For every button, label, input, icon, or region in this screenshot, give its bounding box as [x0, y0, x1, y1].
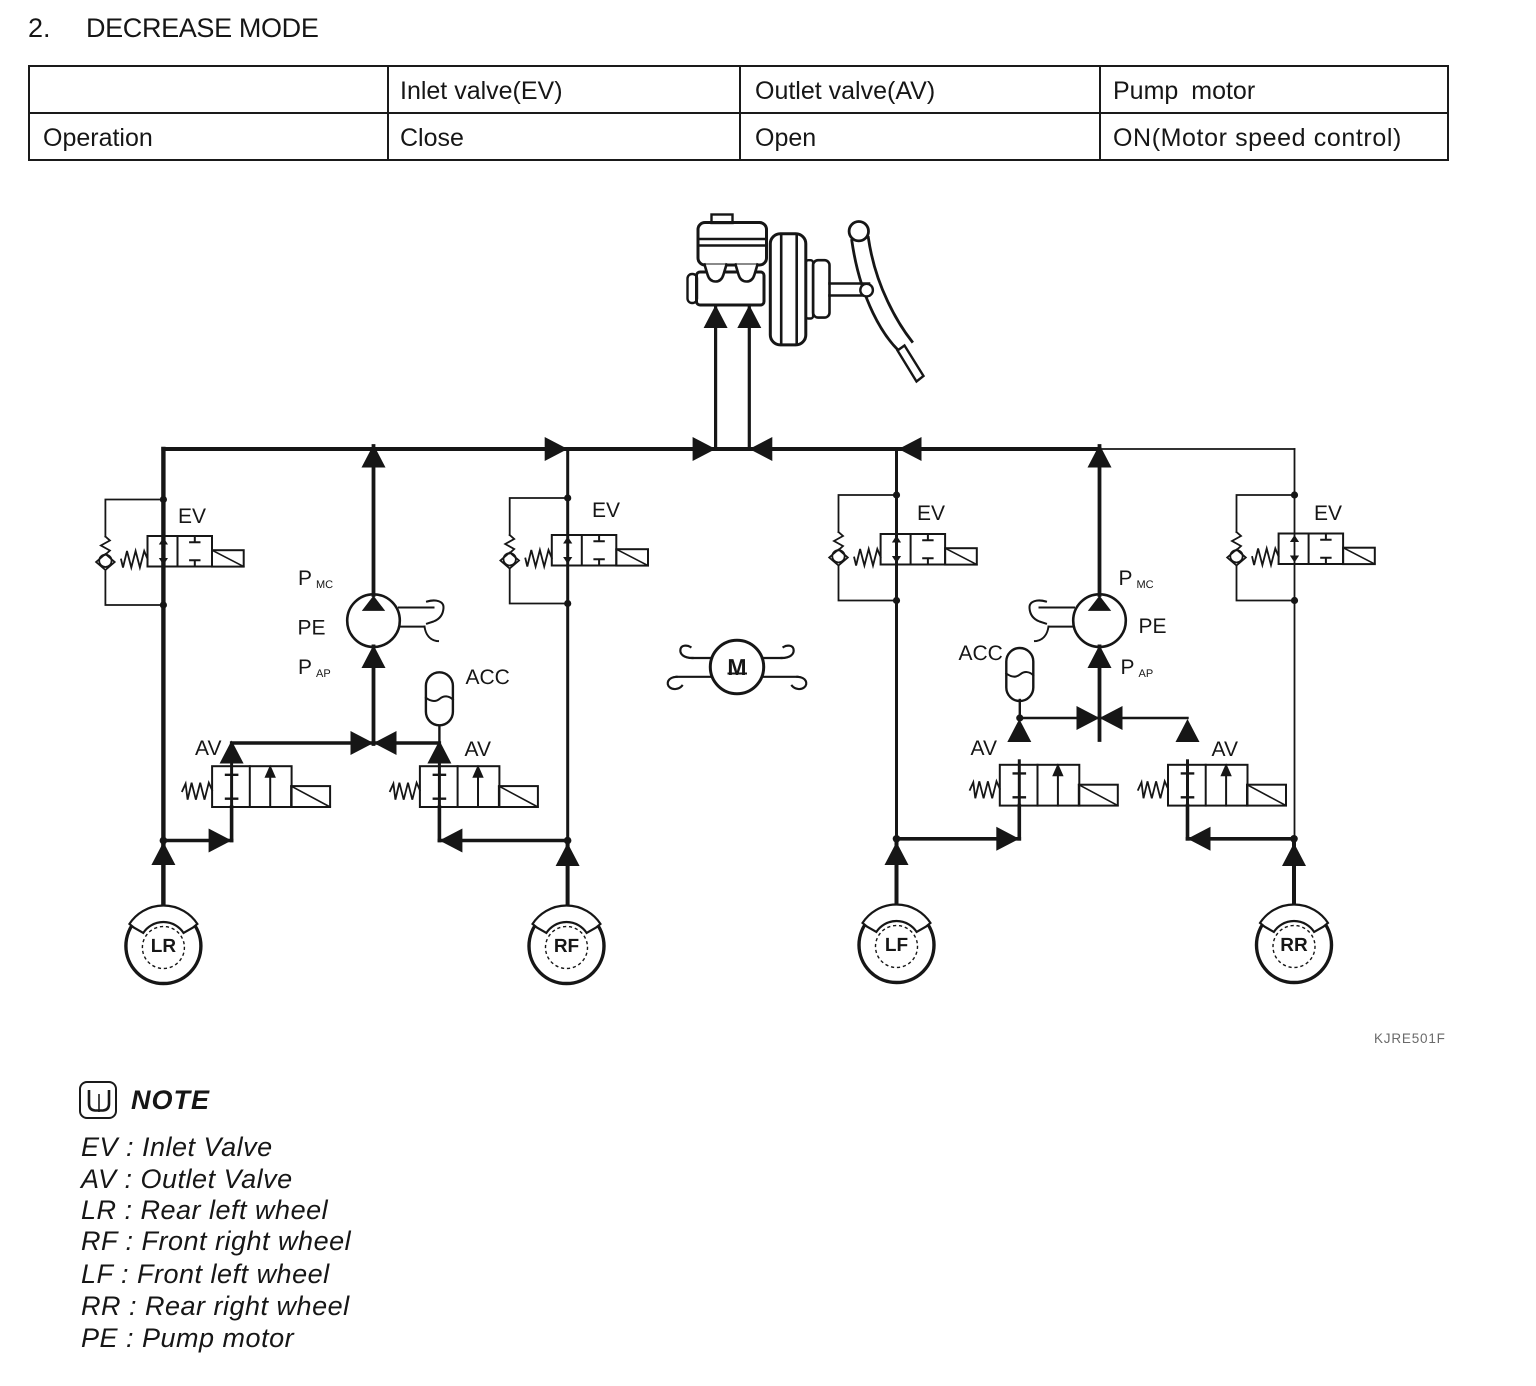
label P MC right: [1119, 567, 1154, 591]
brake booster: [770, 234, 829, 345]
title: [28, 13, 51, 44]
wire AV return line right: [1020, 717, 1188, 719]
arrow bus toward MC primary: [693, 437, 716, 461]
wire pump right discharge: [1088, 445, 1112, 596]
legend: [81, 1132, 273, 1163]
arrow AV4 to return: [1176, 719, 1200, 742]
wire pump right suction: [1088, 645, 1112, 740]
wire RF circuit vertical: [566, 449, 569, 909]
note icon: [79, 1081, 117, 1119]
label ACC left: [466, 666, 510, 689]
wire pump left discharge: [362, 445, 386, 596]
wire RR lower link: [1188, 827, 1295, 851]
arrow LF wheel feed: [885, 842, 909, 865]
label EV4: [1314, 502, 1342, 525]
wire bus thin right segment: [1100, 448, 1295, 450]
arrow bus toward LF node: [899, 437, 922, 461]
inlet valve EV3 (LF): [854, 534, 977, 566]
figure code: [1374, 1031, 1446, 1046]
svg-text:MC: MC: [316, 579, 333, 591]
svg-text:AV: AV: [971, 737, 997, 760]
wire ACC left stem: [438, 726, 440, 743]
wire master cylinder primary line: [704, 305, 728, 449]
wire AV2 outlet stub: [438, 807, 442, 841]
arrow bus toward MC secondary: [749, 437, 772, 461]
svg-text:P: P: [298, 567, 312, 590]
label P AP left: [298, 656, 331, 680]
arrow RF wheel feed: [556, 843, 580, 866]
wire LF circuit vertical: [895, 449, 898, 908]
wire RF lower link: [439, 829, 567, 853]
svg-text:AV: AV: [465, 738, 491, 761]
svg-text:ACC: ACC: [959, 642, 1003, 665]
outlet valve AV1 (LR): [182, 762, 330, 807]
arrow bus toward RF node: [545, 437, 568, 461]
svg-text:RF: RF: [554, 936, 579, 957]
svg-text:P: P: [1119, 567, 1133, 590]
svg-text:PE: PE: [298, 617, 326, 640]
svg-text:EV: EV: [1314, 502, 1342, 525]
accumulator ACC left: [426, 672, 453, 725]
svg-text:EV: EV: [917, 502, 945, 525]
label P MC left: [298, 567, 333, 591]
svg-text:AV: AV: [1212, 738, 1238, 761]
wheel LR: [126, 841, 201, 984]
arrow RR wheel feed: [1282, 843, 1306, 866]
svg-text:RR: RR: [1280, 935, 1308, 956]
inlet valve EV4 (RR): [1252, 534, 1375, 566]
svg-text:M: M: [727, 654, 746, 680]
svg-text:LF: LF: [885, 935, 908, 956]
check valve bypass EV1: [96, 496, 167, 609]
wire main supply bus: [163, 447, 1099, 451]
wire pump left suction: [362, 645, 386, 744]
wire AV return line left: [232, 741, 440, 744]
label EV1: [178, 505, 206, 528]
junction butterfly right: [1077, 706, 1123, 730]
outlet valve AV2 (RF): [390, 762, 538, 807]
check valve bypass EV4: [1227, 491, 1298, 604]
check valve bypass EV2: [500, 494, 571, 607]
arrow AV3 to return: [1007, 719, 1031, 742]
svg-text:AP: AP: [1139, 668, 1154, 680]
master cylinder ports: [705, 265, 758, 282]
wire LF lower link: [897, 827, 1020, 851]
svg-text:P: P: [298, 656, 312, 679]
label PE right: [1139, 615, 1167, 638]
brake pedal: [849, 222, 923, 382]
wheel RR: [1257, 839, 1332, 983]
master cylinder reservoir: [698, 223, 767, 266]
label AV4: [1212, 738, 1238, 761]
svg-text:AV: AV: [195, 737, 221, 760]
svg-text:AP: AP: [316, 668, 331, 680]
label EV3: [917, 502, 945, 525]
pump PE right: [1029, 594, 1125, 647]
wire AV4 outlet stub: [1186, 806, 1190, 839]
pump PE left: [347, 594, 443, 647]
accumulator ACC right: [1006, 648, 1033, 701]
junction butterfly left: [351, 731, 397, 755]
motor M: [668, 640, 807, 693]
arrow LR wheel feed: [151, 842, 175, 865]
wheel RF: [529, 841, 604, 984]
master cylinder reservoir cap: [712, 215, 733, 224]
svg-text:PE: PE: [1139, 615, 1167, 638]
wire LR circuit vertical: [161, 449, 165, 909]
label AV1: [195, 737, 221, 760]
svg-text:P: P: [1121, 656, 1135, 679]
inlet valve EV1 (LR): [121, 536, 244, 568]
svg-text:EV: EV: [592, 499, 620, 522]
svg-text:LR: LR: [151, 936, 177, 957]
inlet valve EV2 (RF): [525, 535, 648, 567]
wire RR circuit vertical: [1294, 449, 1296, 908]
arrow AV2 to return: [427, 741, 451, 764]
svg-text:MC: MC: [1137, 579, 1154, 591]
outlet valve AV3 (LF): [970, 761, 1118, 806]
svg-text:ACC: ACC: [466, 666, 510, 689]
wire AV3 outlet stub: [1017, 806, 1021, 839]
master cylinder body: [688, 272, 765, 305]
wire AV1 outlet stub: [230, 807, 234, 841]
junction dots lower rail: [160, 835, 1298, 844]
label P AP right: [1121, 656, 1154, 680]
wire ACC right stem: [1016, 700, 1023, 722]
svg-text:EV: EV: [178, 505, 206, 528]
check valve bypass EV3: [829, 491, 900, 604]
outlet valve AV4 (RR): [1138, 761, 1286, 806]
table: [28, 65, 1449, 161]
label AV2: [465, 738, 491, 761]
wire LR lower link: [163, 829, 231, 853]
wheel LF: [859, 839, 934, 983]
wire master cylinder secondary line: [737, 305, 761, 449]
label AV3: [971, 737, 997, 760]
label EV2: [592, 499, 620, 522]
label ACC right: [959, 642, 1003, 665]
arrow AV1 to return: [220, 741, 244, 764]
label PE left: [298, 617, 326, 640]
booster pushrod: [830, 284, 870, 296]
